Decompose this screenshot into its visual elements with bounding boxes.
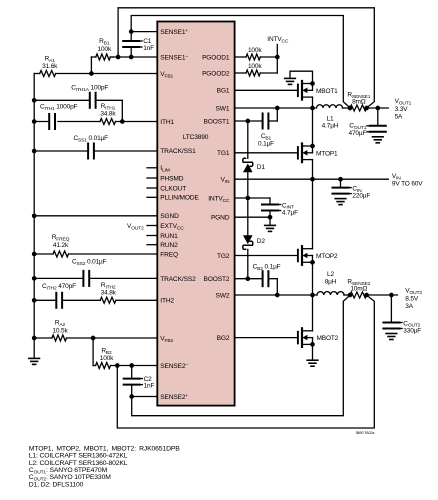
node SENSE1- outer junction bbox=[116, 55, 121, 60]
ground CIN bbox=[335, 199, 346, 205]
svg-text:9V TO 60V: 9V TO 60V bbox=[392, 181, 423, 188]
node C1 bottom junction bbox=[129, 55, 134, 60]
svg-text:4.7µH: 4.7µH bbox=[322, 123, 339, 130]
svg-text:100k: 100k bbox=[248, 47, 262, 54]
resistor RSENSE1 8mohm bbox=[347, 92, 370, 111]
node RA2 rail junction bbox=[32, 336, 37, 341]
svg-text:10.5k: 10.5k bbox=[52, 327, 68, 334]
svg-text:PGOOD1: PGOOD1 bbox=[202, 54, 230, 61]
resistor RB1 100k bbox=[91, 38, 113, 60]
wire PLLIN/MODE stub bbox=[147, 196, 157, 198]
wire MTOP2 source to SW2 bbox=[310, 262, 315, 297]
svg-text:BG2: BG2 bbox=[217, 335, 230, 342]
resistor RFREQ 41.2k bbox=[34, 234, 157, 257]
notes component table bbox=[29, 445, 180, 488]
resistor PGOOD1 pullup 100k bbox=[235, 47, 278, 60]
svg-text:SENSE2+: SENSE2+ bbox=[160, 394, 188, 401]
label figure number bbox=[355, 431, 375, 435]
svg-text:ITH1: ITH1 bbox=[160, 119, 174, 126]
svg-text:D2: D2 bbox=[257, 238, 266, 245]
svg-text:470µF: 470µF bbox=[348, 130, 366, 137]
transistor MBOT1 bbox=[298, 81, 338, 100]
IC U1 left pin labels bbox=[160, 29, 199, 401]
ground MBOT1 bbox=[285, 78, 296, 84]
node CSS2 rail junction bbox=[32, 276, 37, 281]
svg-text:4.7µF: 4.7µF bbox=[282, 210, 298, 217]
diode D2 schottky bbox=[243, 198, 266, 279]
resistor RA1 31.6k bbox=[34, 55, 157, 76]
wire SW1 line bbox=[235, 107, 315, 109]
svg-text:CLKOUT: CLKOUT bbox=[160, 185, 186, 192]
resistor RA2 10.5k bbox=[34, 320, 157, 342]
wire MTOP1 drain to VIN bbox=[312, 160, 314, 180]
svg-text:41.2k: 41.2k bbox=[53, 242, 69, 249]
svg-text:100k: 100k bbox=[98, 46, 112, 53]
wire TG1 to MTOP1 gate bbox=[235, 152, 298, 154]
svg-text:TRACK/SS1: TRACK/SS1 bbox=[160, 148, 196, 155]
node C2 bottom junction bbox=[129, 394, 134, 399]
node RSENSE1 right sense junction bbox=[364, 106, 369, 111]
svg-text:MTOP1, MTOP2, MBOT1, MBOT2: RJ: MTOP1, MTOP2, MBOT1, MBOT2: RJK0651DPB bbox=[29, 445, 180, 452]
wire MBOT1 source to ground bbox=[290, 71, 313, 83]
svg-text:SW1: SW1 bbox=[216, 105, 230, 112]
svg-text:SENSE1–: SENSE1– bbox=[160, 54, 188, 61]
svg-text:RUN2: RUN2 bbox=[160, 242, 178, 249]
node SENSE2- outer junction bbox=[115, 363, 120, 368]
node RITH1 CITH1A junction bbox=[120, 119, 125, 124]
node D2 cathode junction bbox=[245, 276, 250, 281]
node COUT2 junction bbox=[389, 293, 394, 298]
resistor RITH2 34.8k bbox=[100, 282, 116, 303]
wire ITH2 line bbox=[34, 299, 157, 301]
svg-text:TG2: TG2 bbox=[217, 253, 230, 260]
capacitor C2 1nF bbox=[124, 366, 155, 397]
wire SENSE1- outer sense loop bbox=[118, 8, 374, 108]
svg-text:BOOST1: BOOST1 bbox=[204, 118, 230, 125]
svg-text:MBOT2: MBOT2 bbox=[317, 335, 339, 342]
wire SW2 line bbox=[235, 294, 317, 296]
wire CB1 to SW1 bbox=[275, 106, 280, 121]
node D1 anode junction bbox=[245, 196, 250, 201]
svg-text:L1: L1 bbox=[327, 115, 334, 122]
wire SENSE1+ pin bbox=[131, 31, 157, 33]
transistor MTOP1 bbox=[298, 144, 338, 163]
node COUT1 junction bbox=[375, 106, 380, 111]
wire RB1 to VFB1 bbox=[89, 57, 94, 76]
node MTOP drains junction bbox=[310, 177, 315, 182]
wire EXTVCC stub VOUT2 bbox=[127, 223, 157, 231]
node PGOOD junction bbox=[275, 55, 280, 60]
wire CLKOUT stub bbox=[147, 187, 157, 189]
node D1 cathode junction bbox=[245, 119, 250, 124]
wire INTVCC line bbox=[235, 197, 270, 199]
ground MBOT2 bbox=[307, 360, 318, 366]
wire MBOT2 drain to SW2 bbox=[312, 295, 314, 331]
capacitor CITH1A 100pF bbox=[34, 85, 122, 122]
svg-text:PLLIN/MODE: PLLIN/MODE bbox=[160, 195, 199, 202]
svg-text:TG1: TG1 bbox=[217, 150, 230, 157]
svg-text:100k: 100k bbox=[100, 355, 114, 362]
svg-text:SW2: SW2 bbox=[216, 292, 230, 299]
svg-text:34.8k: 34.8k bbox=[101, 290, 117, 297]
IC U1 LTC3890 body bbox=[157, 22, 234, 406]
wire VIN line bbox=[235, 178, 389, 180]
svg-text:PHSMD: PHSMD bbox=[160, 175, 183, 182]
diode D1 schottky bbox=[243, 121, 266, 198]
node CIN junction bbox=[338, 177, 343, 182]
node C2 top junction bbox=[129, 363, 134, 368]
inductor L2 8uH bbox=[317, 271, 350, 295]
svg-text:L2: COILCRAFT SER1360-802KL: L2: COILCRAFT SER1360-802KL bbox=[29, 460, 128, 467]
svg-text:3A: 3A bbox=[405, 303, 413, 310]
svg-text:8.5V: 8.5V bbox=[405, 295, 419, 302]
svg-text:SENSE1+: SENSE1+ bbox=[160, 29, 188, 36]
node RSENSE2 right sense junction bbox=[364, 293, 369, 298]
wire MTOP2 drain to VIN bbox=[312, 179, 314, 249]
svg-text:BOOST2: BOOST2 bbox=[204, 276, 230, 283]
wire ILIM stub bbox=[147, 167, 157, 169]
svg-text:L2: L2 bbox=[327, 271, 334, 278]
svg-text:SENSE2–: SENSE2– bbox=[160, 363, 188, 370]
svg-text:MTOP2: MTOP2 bbox=[316, 253, 338, 260]
capacitor COUT2 330uF bbox=[383, 295, 421, 335]
svg-text:SGND: SGND bbox=[160, 213, 179, 220]
svg-text:34.8k: 34.8k bbox=[100, 111, 116, 118]
svg-text:31.6k: 31.6k bbox=[42, 63, 58, 70]
svg-text:D1: D1 bbox=[257, 164, 266, 171]
node SENSE1+ junction bbox=[129, 29, 134, 34]
svg-text:330µF: 330µF bbox=[403, 328, 421, 335]
wire MBOT1 drain to SW1 bbox=[310, 97, 315, 110]
wire PGND line bbox=[235, 216, 270, 218]
svg-text:8mΩ: 8mΩ bbox=[352, 99, 366, 106]
capacitor C1 1nF bbox=[123, 32, 154, 57]
wire CB2 to SW2 bbox=[275, 279, 280, 298]
wire SGND line bbox=[32, 213, 157, 218]
node RSENSE2 left sense junction bbox=[348, 293, 353, 298]
wire PHSMD stub bbox=[147, 177, 157, 179]
svg-text:MTOP1: MTOP1 bbox=[316, 150, 338, 157]
wire BG1 to MBOT1 gate bbox=[235, 89, 298, 91]
capacitor CITH2 470pF bbox=[42, 283, 76, 308]
svg-text:ITH2: ITH2 bbox=[160, 298, 174, 305]
svg-text:LTC3890: LTC3890 bbox=[183, 134, 209, 141]
svg-text:0.1µF: 0.1µF bbox=[258, 140, 274, 147]
svg-text:TRACK/SS2: TRACK/SS2 bbox=[160, 276, 196, 283]
svg-text:3890 TA02a: 3890 TA02a bbox=[355, 431, 375, 435]
wire VOUT2 line bbox=[367, 294, 398, 296]
node RFREQ rail junction bbox=[32, 252, 37, 257]
wire RUN1 stub bbox=[147, 235, 157, 237]
svg-text:10mΩ: 10mΩ bbox=[350, 286, 367, 293]
capacitor CITH1 1000pF bbox=[40, 104, 78, 129]
node ITH1 rail junction bbox=[32, 119, 37, 124]
svg-text:FREQ: FREQ bbox=[160, 251, 178, 258]
svg-text:RUN1: RUN1 bbox=[160, 233, 178, 240]
wire SENSE2+ inner return loop bbox=[132, 295, 350, 416]
ground COUT1 bbox=[373, 137, 384, 143]
transistor MTOP2 bbox=[298, 246, 338, 265]
capacitor CSS1 0.01uF bbox=[34, 135, 157, 159]
node CITH1A rail junction bbox=[32, 98, 37, 103]
node RB2 top junction bbox=[91, 336, 96, 341]
node CSS1 rail junction bbox=[32, 149, 37, 154]
svg-text:PGND: PGND bbox=[211, 215, 230, 222]
svg-text:3.3V: 3.3V bbox=[395, 106, 409, 113]
wire VOUT1 line bbox=[367, 107, 389, 109]
wire ITH1 line bbox=[34, 121, 157, 123]
capacitor CIN 220uF bbox=[333, 179, 371, 199]
wire MTOP1 source to SW1 bbox=[312, 108, 314, 146]
svg-text:L1: COILCRAFT SER1360-472KL: L1: COILCRAFT SER1360-472KL bbox=[29, 453, 128, 460]
capacitor CSS2 0.01uF bbox=[34, 258, 157, 286]
capacitor CB2 0.1uF bbox=[235, 263, 281, 286]
wire SENSE1+ inner sense loop bbox=[131, 16, 350, 108]
resistor RSENSE2 10mohm bbox=[347, 279, 370, 298]
resistor RITH1 34.8k bbox=[100, 103, 116, 124]
svg-text:8µH: 8µH bbox=[325, 279, 337, 286]
svg-text:BG1: BG1 bbox=[217, 88, 230, 95]
resistor RB2 100k bbox=[93, 338, 157, 369]
node PGND junction bbox=[268, 215, 273, 220]
inductor L1 4.7uH bbox=[317, 105, 351, 130]
wire BG2 to MBOT2 gate bbox=[235, 337, 298, 339]
wire MBOT2 source to ground bbox=[312, 344, 314, 359]
svg-text:PGOOD2: PGOOD2 bbox=[202, 70, 230, 77]
ground left rail bbox=[29, 358, 40, 364]
wire left ground rail bbox=[33, 74, 35, 359]
wire SENSE2+ pin bbox=[132, 396, 158, 398]
svg-text:1nF: 1nF bbox=[143, 45, 154, 52]
node ITH2 rail junction bbox=[32, 298, 37, 303]
wire SENSE1- pin bbox=[113, 56, 157, 58]
wire TG2 to MTOP2 gate bbox=[235, 255, 298, 257]
svg-text:5A: 5A bbox=[395, 114, 403, 121]
net VIN label bbox=[392, 173, 423, 188]
wire RUN2 stub bbox=[147, 244, 157, 246]
svg-text:220µF: 220µF bbox=[352, 193, 370, 200]
capacitor CB1 0.1uF bbox=[235, 114, 278, 148]
capacitor COUT1 470uF bbox=[348, 108, 385, 137]
transistor MBOT2 bbox=[298, 328, 339, 347]
svg-text:D1, D2: DFLS1100: D1, D2: DFLS1100 bbox=[29, 481, 84, 488]
wire SENSE2- outer return loop bbox=[117, 295, 374, 428]
ground CINT bbox=[265, 225, 276, 231]
svg-text:MBOT1: MBOT1 bbox=[316, 88, 338, 95]
net VOUT2 label bbox=[405, 288, 422, 310]
capacitor CINT 4.7uF bbox=[262, 198, 298, 224]
node RSENSE1 left sense junction bbox=[348, 106, 353, 111]
resistor PGOOD2 pullup 100k bbox=[235, 63, 278, 76]
wire INTVCC pullup riser bbox=[276, 45, 278, 74]
svg-text:1nF: 1nF bbox=[144, 382, 155, 389]
net INTVCC label bbox=[267, 36, 289, 44]
net VOUT1 label bbox=[395, 98, 412, 120]
ground COUT2 bbox=[386, 334, 397, 340]
svg-text:100k: 100k bbox=[248, 63, 262, 70]
IC U1 right pin labels bbox=[202, 54, 230, 342]
